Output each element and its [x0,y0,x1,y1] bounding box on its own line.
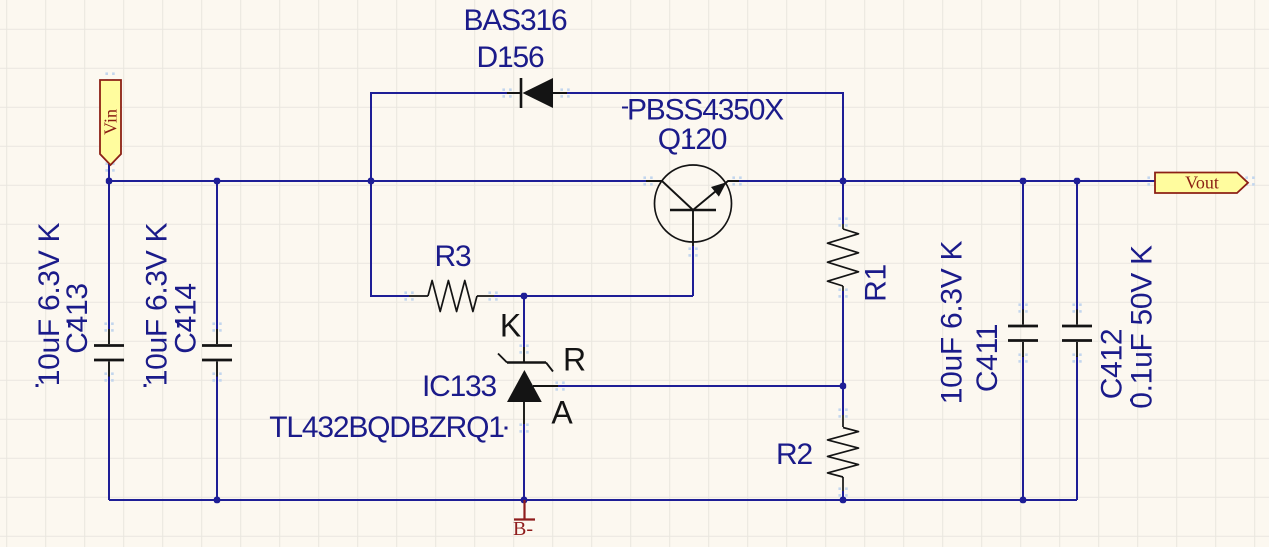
wire bottom rail [109,499,1077,501]
resistor R3 zigzag [428,281,477,312]
junction C412 top node [1074,178,1080,184]
capacitor C414 plates [216,329,218,377]
svg-text:IC133: IC133 [422,370,497,403]
pin hotspot markers (pale blue) [502,88,505,91]
svg-text:C412: C412 [1096,329,1129,400]
svg-text:PBSS4350X: PBSS4350X [627,94,784,127]
junction K node [521,293,527,299]
wire Vin port stub [108,164,110,181]
svg-text:R3: R3 [435,240,471,273]
wire C414 top wire [216,181,218,329]
diode D156 symbol [507,78,567,108]
junction R1 top node [840,178,846,184]
wire R3 right to Q120 base node [494,295,693,297]
svg-text:BAS316: BAS316 [464,4,567,37]
wire Q120 base vertical wire [692,246,694,296]
capacitor C412 plates [1076,310,1078,358]
power port Vin [100,80,121,165]
resistor R1 leads [842,224,844,291]
wire TL432 anode (A) wire [523,424,525,500]
svg-text:C413: C413 [61,283,94,354]
wire top branch diode cathode side down to main rail [567,93,843,181]
wire branch down to R3 left [371,181,409,296]
capacitor C413 plates [108,329,110,377]
wire C412 top wire [1076,181,1078,310]
junction Vin node [106,178,112,184]
junction R1/R2 node [840,383,846,389]
wire R2 bottom wire [842,491,844,500]
svg-text:C411: C411 [971,324,1004,392]
junction C414 bottom node [214,497,220,503]
svg-text:Vin: Vin [101,109,121,135]
port Vout [1155,173,1248,194]
wire main rail right segment (Q120 emitter to Vout) [739,180,1155,182]
transistor Q120 (PBSS4350X) [646,165,739,246]
wire R1 bottom / R2 top wire [842,291,844,415]
svg-text:R: R [563,342,586,378]
wire top branch up-left to diode D156 anode side [371,93,507,181]
svg-text:C414: C414 [170,283,203,354]
wire C413 bottom wire [108,376,110,500]
wire C411 bottom wire [1022,356,1024,500]
wire TL432 reference (R) wire to R1/R2 node [558,385,843,387]
shunt regulator IC133 TL432 symbol [498,347,558,424]
junction R2 bottom node [840,497,846,503]
svg-text:0.1uF 50V K: 0.1uF 50V K [1126,245,1159,409]
svg-text:Vout: Vout [1185,173,1219,193]
wire TL432 cathode (K) wire [523,296,525,347]
wire R1 top wire [842,181,844,224]
svg-text:R1: R1 [860,264,893,302]
resistor R2 zigzag [828,428,859,478]
svg-text:A: A [551,395,573,431]
resistor R3 leads [409,295,494,297]
wire main rail left segment (Vin node to Q120 collector) [109,180,646,182]
power port B- [513,500,535,540]
capacitor C411 plates [1022,310,1024,358]
resistor R2 leads [842,415,844,491]
wire C414 bottom wire [216,376,218,500]
svg-text:10uF 6.3V K: 10uF 6.3V K [936,240,969,404]
text anchor marks [505,57,511,59]
svg-text:B-: B- [513,518,533,540]
svg-text:R2: R2 [776,438,812,471]
junction diode branch node [368,178,374,184]
wire C412 bottom wire [1076,356,1078,500]
junction C411 top node [1020,178,1026,184]
svg-text:TL432BQDBZRQ1: TL432BQDBZRQ1 [269,411,504,444]
svg-text:K: K [500,308,521,344]
junction C411 bottom node [1020,497,1026,503]
junction C414 top node [214,178,220,184]
wire C413 top wire [108,181,110,329]
svg-text:Q120: Q120 [658,123,727,156]
wire C411 top wire [1022,181,1024,310]
junction anode bottom node [521,497,527,503]
resistor R1 zigzag [828,229,859,286]
